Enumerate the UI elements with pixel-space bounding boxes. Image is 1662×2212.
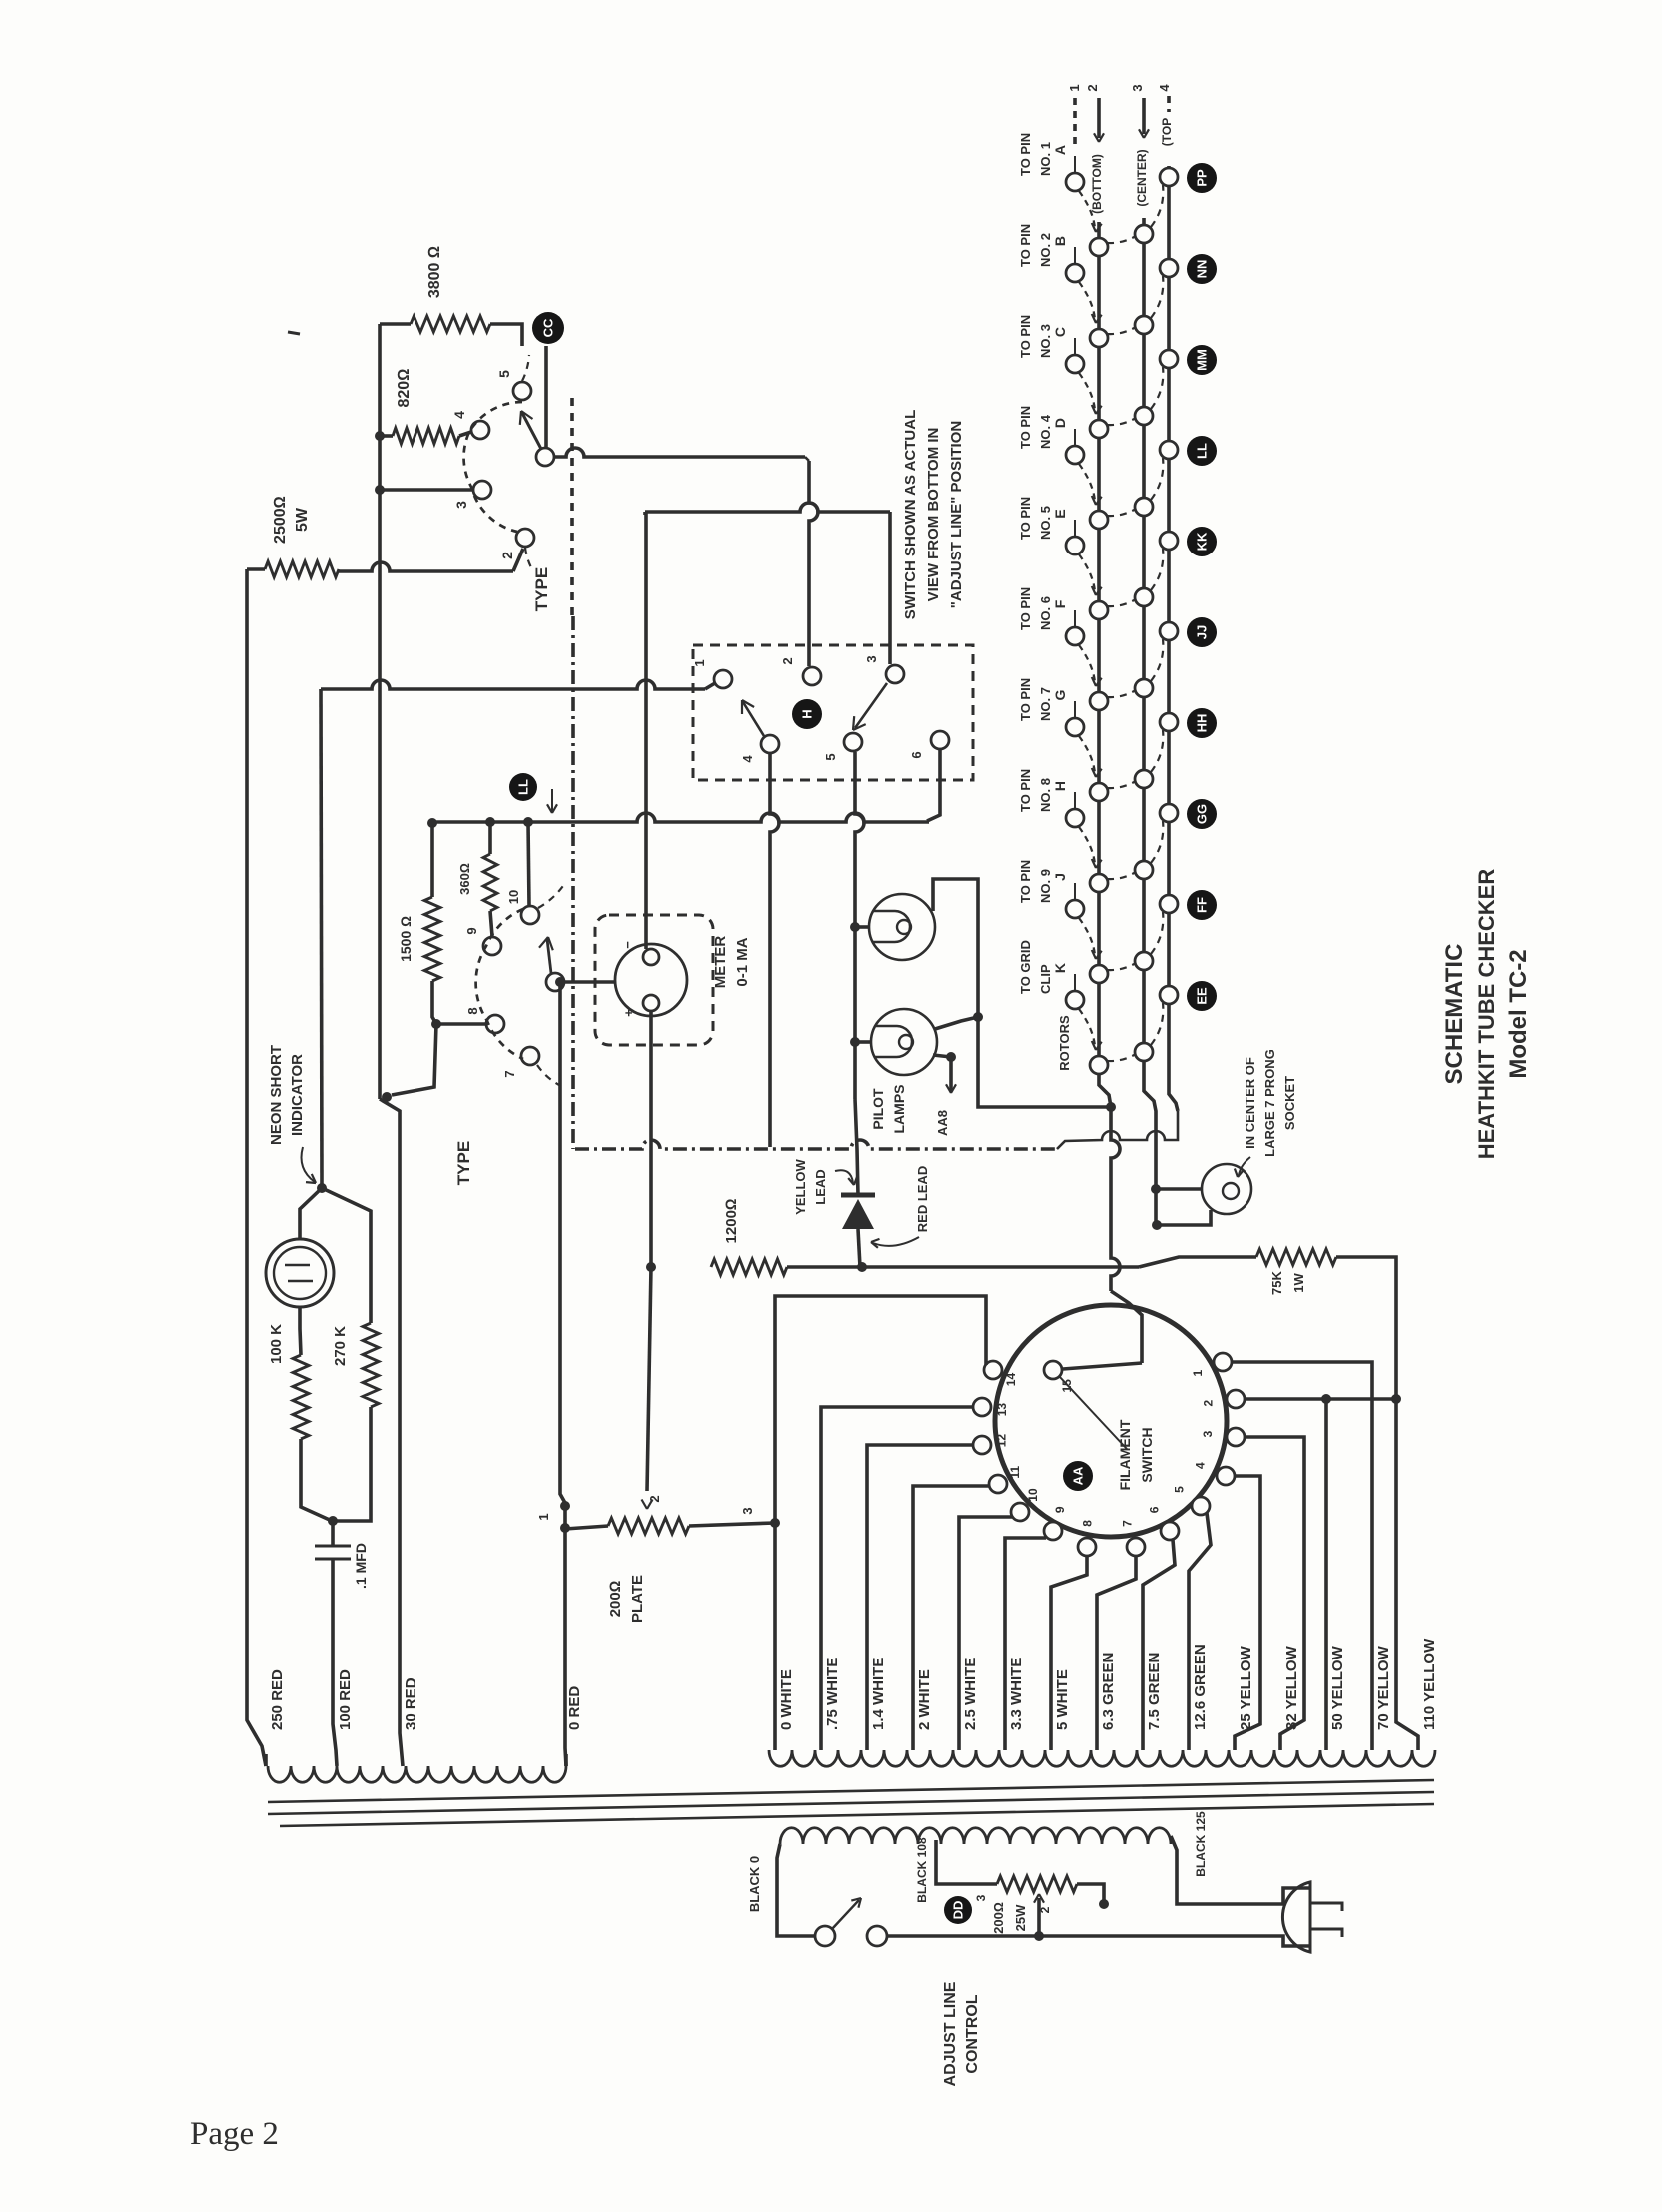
wire diode bottom bbox=[858, 1229, 860, 1267]
svg-text:360Ω: 360Ω bbox=[457, 863, 472, 895]
svg-text:11: 11 bbox=[1008, 1466, 1022, 1479]
lower TYPE contact 8 bbox=[486, 1015, 504, 1033]
wire 75K junction to tap14 bbox=[1396, 1399, 1418, 1750]
svg-text:HEATHKIT TUBE CHECKER: HEATHKIT TUBE CHECKER bbox=[1474, 869, 1499, 1160]
svg-text:Model TC-2: Model TC-2 bbox=[1505, 949, 1532, 1078]
wire meter top vertical bbox=[643, 512, 647, 515]
svg-text:NO. 1: NO. 1 bbox=[1038, 142, 1053, 176]
resistor 3800 ohm bbox=[411, 316, 490, 332]
svg-text:ADJUST LINE: ADJUST LINE bbox=[942, 1981, 959, 2086]
svg-text:75K: 75K bbox=[1269, 1270, 1284, 1294]
wire 270K bottom bbox=[334, 1407, 371, 1521]
wire primary right end bbox=[1171, 1836, 1260, 1904]
meter terminal minus bbox=[643, 949, 659, 965]
dashed wiper links rung D bbox=[1107, 509, 1136, 516]
dash-dot gang line lower bbox=[575, 1140, 1057, 1149]
wire 3800 left lead bbox=[380, 322, 411, 326]
node PP bbox=[1187, 163, 1217, 193]
svg-text:7: 7 bbox=[1120, 1520, 1134, 1527]
junction 30RED bbox=[427, 818, 437, 828]
svg-text:4: 4 bbox=[740, 755, 755, 763]
svg-text:4: 4 bbox=[451, 411, 467, 419]
svg-text:6: 6 bbox=[1148, 1506, 1162, 1513]
rail3 contact rung J bbox=[1135, 952, 1153, 970]
rail2 contact rung J bbox=[1090, 965, 1108, 983]
primary winding bbox=[780, 1828, 1171, 1844]
wire lower rotor output bbox=[565, 980, 616, 984]
svg-text:3.3 WHITE: 3.3 WHITE bbox=[1008, 1658, 1025, 1730]
rail3 contact rung F bbox=[1135, 679, 1153, 697]
wire diode top to lamps bbox=[855, 1099, 858, 1195]
wire primary left down bbox=[777, 1844, 815, 1936]
wire rail 100 RED upper bbox=[321, 689, 322, 1186]
wire plate pot left bbox=[565, 1526, 608, 1529]
rail4 contact rung J bbox=[1160, 895, 1178, 913]
pin in center of 7 prong socket bbox=[1202, 1164, 1251, 1214]
dash-dot gang line down to lower switch bbox=[571, 616, 575, 1149]
wire rail4 return bbox=[1057, 1111, 1178, 1149]
svg-text:5 WHITE: 5 WHITE bbox=[1054, 1669, 1071, 1730]
wire 3800 right lead to CC stub bbox=[490, 324, 522, 346]
svg-text:TO PIN: TO PIN bbox=[1018, 406, 1033, 449]
resistor 1200 ohm bbox=[711, 1259, 787, 1275]
svg-text:H: H bbox=[1052, 781, 1068, 791]
rail3 contact rung D bbox=[1135, 498, 1153, 516]
dashed wiper links rung A bbox=[1107, 236, 1136, 243]
svg-text:NEON SHORT: NEON SHORT bbox=[268, 1045, 285, 1145]
svg-text:C: C bbox=[1052, 327, 1068, 337]
svg-text:9: 9 bbox=[1053, 1506, 1067, 1513]
svg-text:NO. 2: NO. 2 bbox=[1038, 233, 1053, 267]
svg-text:NO. 6: NO. 6 bbox=[1038, 596, 1053, 630]
svg-text:2500Ω: 2500Ω bbox=[272, 496, 289, 544]
rail4 contact rung E bbox=[1160, 532, 1178, 550]
wire 0RED tap bbox=[564, 1754, 568, 1766]
svg-text:(CENTER): (CENTER) bbox=[1135, 149, 1149, 206]
wire rotor rail 3 CENTER bbox=[1144, 218, 1156, 1225]
svg-text:2 WHITE: 2 WHITE bbox=[916, 1669, 933, 1730]
svg-text:8: 8 bbox=[1081, 1520, 1095, 1527]
socket pin contact D bbox=[1066, 446, 1084, 464]
svg-text:.75 WHITE: .75 WHITE bbox=[824, 1658, 841, 1730]
svg-text:KK: KK bbox=[1195, 532, 1210, 551]
wire lamp line to socket symbol bbox=[1156, 1187, 1202, 1191]
svg-text:HH: HH bbox=[1195, 714, 1210, 733]
svg-text:2: 2 bbox=[1201, 1400, 1215, 1407]
wire 2500 right lead to TYPE contact 2 bbox=[339, 562, 513, 571]
svg-text:GG: GG bbox=[1195, 804, 1210, 824]
svg-text:TO PIN: TO PIN bbox=[1018, 860, 1033, 903]
dashed wiper links rung C bbox=[1107, 418, 1136, 425]
wire rail 30 RED from resistor bank bbox=[378, 324, 382, 1099]
svg-text:1: 1 bbox=[692, 659, 707, 666]
rail2 contact rung E bbox=[1090, 601, 1108, 619]
resistor 100K bbox=[293, 1355, 309, 1439]
wire rotor rail 4 TOP bbox=[1169, 166, 1178, 1111]
dashed rotor arrow rung C bbox=[1079, 373, 1095, 410]
svg-text:AA: AA bbox=[1071, 1466, 1086, 1485]
svg-text:2: 2 bbox=[780, 657, 795, 664]
socket pin contact B bbox=[1066, 264, 1084, 282]
wire c14 up and over to 0-WHITE tap bbox=[775, 1296, 986, 1750]
filament switch contact 7 bbox=[1127, 1538, 1145, 1556]
rail2 contact rung A bbox=[1090, 238, 1108, 256]
rotary switch TYPE upper - rotor contact bbox=[536, 448, 554, 466]
switch H contact 1 bbox=[714, 670, 732, 688]
core rail 2 bbox=[268, 1792, 1434, 1814]
svg-text:SCHEMATIC: SCHEMATIC bbox=[1441, 944, 1468, 1085]
wire to TYPE contact 3 bbox=[380, 488, 472, 492]
node JJ bbox=[1187, 617, 1217, 647]
node FF bbox=[1187, 890, 1217, 920]
svg-text:NN: NN bbox=[1195, 260, 1210, 279]
rail3 contact rung A bbox=[1135, 225, 1153, 243]
svg-text:1: 1 bbox=[1191, 1370, 1205, 1377]
filament switch contact 4 bbox=[1217, 1467, 1235, 1485]
wiper 200-25W bbox=[1037, 1898, 1041, 1936]
svg-text:110 YELLOW: 110 YELLOW bbox=[1421, 1638, 1438, 1730]
wire 2500 left lead bbox=[247, 567, 265, 571]
wire c8 to tap6 bbox=[1051, 1556, 1087, 1750]
rail4 contact rung H bbox=[1160, 804, 1178, 822]
svg-text:BLACK 108: BLACK 108 bbox=[915, 1837, 929, 1903]
node AA bbox=[1063, 1461, 1093, 1491]
node meter-1200 junction bbox=[646, 1262, 656, 1272]
svg-text:3800 Ω: 3800 Ω bbox=[426, 246, 443, 298]
rail4 contact rung C bbox=[1160, 350, 1178, 368]
wire c12 to tap2 bbox=[867, 1445, 973, 1750]
svg-text:RED LEAD: RED LEAD bbox=[915, 1166, 930, 1232]
rotor arm H left bbox=[743, 702, 764, 736]
svg-text:1500 Ω: 1500 Ω bbox=[398, 916, 414, 962]
arrow LL bbox=[551, 789, 553, 811]
svg-text:1: 1 bbox=[1067, 84, 1082, 91]
wire 1200 right to 75K bbox=[787, 1265, 1139, 1269]
dashed stub contact2 bbox=[525, 548, 533, 571]
svg-text:H: H bbox=[800, 709, 815, 718]
svg-text:(TOP: (TOP bbox=[1160, 118, 1174, 146]
wire rotor to H-box contact 2 bbox=[555, 448, 805, 457]
svg-text:TYPE: TYPE bbox=[454, 1141, 473, 1185]
wire plug leads bbox=[1260, 1888, 1310, 1904]
wire c10 to tap4 bbox=[959, 1517, 1012, 1750]
svg-text:10: 10 bbox=[506, 890, 521, 904]
wire H contact6 to bus bbox=[927, 750, 940, 821]
lower TYPE contact 9 bbox=[483, 937, 501, 955]
pilot lamp 2 bbox=[871, 1009, 937, 1075]
rotor arm H right bbox=[855, 683, 887, 728]
filament switch contact 5 bbox=[1192, 1497, 1210, 1515]
svg-text:13: 13 bbox=[995, 1403, 1009, 1417]
filament switch contact 15 bbox=[1044, 1361, 1062, 1379]
dashed rotor arrow rung D bbox=[1079, 464, 1095, 501]
dashed arc upper TYPE switch bbox=[464, 402, 522, 532]
dashed stub contact5 to CC bbox=[522, 355, 529, 381]
socket pin contact K bbox=[1066, 991, 1084, 1009]
node NN bbox=[1187, 254, 1217, 284]
svg-text:25W: 25W bbox=[1013, 1904, 1028, 1931]
rotary switch TYPE upper - contact 5 bbox=[513, 382, 531, 400]
svg-text:3: 3 bbox=[1130, 84, 1145, 91]
svg-text:30 RED: 30 RED bbox=[403, 1677, 419, 1730]
meter dashed box bbox=[595, 915, 713, 1045]
rail3 contact rung G bbox=[1135, 770, 1153, 788]
node LL bbox=[509, 773, 537, 801]
svg-text:2.5 WHITE: 2.5 WHITE bbox=[962, 1658, 979, 1730]
svg-text:6.3 GREEN: 6.3 GREEN bbox=[1100, 1653, 1117, 1730]
svg-text:0 WHITE: 0 WHITE bbox=[778, 1669, 795, 1730]
dashed wiper links rung H bbox=[1107, 872, 1136, 879]
svg-text:2: 2 bbox=[499, 552, 515, 559]
resistor 2500 ohm 5W bbox=[265, 561, 339, 577]
svg-text:NO. 8: NO. 8 bbox=[1038, 778, 1053, 812]
svg-text:3: 3 bbox=[1201, 1430, 1215, 1437]
svg-text:TO PIN: TO PIN bbox=[1018, 224, 1033, 267]
wire c2 to tap12 bbox=[1245, 1397, 1396, 1401]
svg-text:DD: DD bbox=[951, 1901, 966, 1920]
svg-text:SWITCH: SWITCH bbox=[1139, 1427, 1155, 1482]
plate winding bbox=[268, 1766, 566, 1782]
wire c4 to tap10 bbox=[1235, 1476, 1260, 1750]
svg-text:1.4 WHITE: 1.4 WHITE bbox=[870, 1658, 887, 1730]
filament switch contact 13 bbox=[973, 1398, 991, 1416]
svg-text:B: B bbox=[1052, 236, 1068, 246]
svg-text:G: G bbox=[1052, 689, 1068, 700]
capacitor .1 MFD bbox=[315, 1546, 351, 1559]
wire filament bus 822 bbox=[432, 813, 929, 822]
svg-text:BLACK 125: BLACK 125 bbox=[1194, 1811, 1208, 1877]
svg-text:LAMPS: LAMPS bbox=[891, 1085, 907, 1134]
dashed stub contact7 bbox=[537, 1065, 559, 1085]
svg-text:5: 5 bbox=[496, 370, 512, 378]
wire cap top lead bbox=[331, 1521, 335, 1546]
socket pin contact F bbox=[1066, 627, 1084, 645]
svg-text:A: A bbox=[1052, 145, 1068, 155]
rail2 contact rung C bbox=[1090, 420, 1108, 438]
rail2 contact rung H bbox=[1090, 874, 1108, 892]
on-off switch contact left bbox=[815, 1926, 835, 1946]
svg-text:CC: CC bbox=[541, 318, 556, 337]
dashed arc lower TYPE bbox=[476, 909, 523, 1059]
switch H dashed box bbox=[693, 645, 973, 780]
svg-text:INDICATOR: INDICATOR bbox=[289, 1054, 306, 1136]
socket pin contact H bbox=[1066, 809, 1084, 827]
rotary switch TYPE upper - contact 2 bbox=[516, 529, 534, 547]
svg-text:E: E bbox=[1052, 509, 1068, 518]
wire plate pot right to 0-WHITE tap bbox=[689, 1523, 775, 1526]
svg-text:SOCKET: SOCKET bbox=[1282, 1076, 1297, 1130]
wire rail 250 RED bbox=[247, 569, 266, 1766]
dashed wiper links rung B bbox=[1107, 327, 1136, 334]
svg-text:VIEW FROM BOTTOM IN: VIEW FROM BOTTOM IN bbox=[925, 428, 942, 602]
wire socket bottom link bbox=[1157, 1210, 1211, 1225]
wire H-box contact1 feed from left rail bbox=[321, 680, 705, 689]
pilot lamp 1 right wire bbox=[933, 879, 1107, 1107]
AC plug bbox=[1282, 1882, 1310, 1952]
svg-text:TO PIN: TO PIN bbox=[1018, 315, 1033, 358]
dashed rotor arrow rung K bbox=[1079, 1009, 1095, 1046]
node CC bbox=[532, 312, 564, 344]
meter terminal plus bbox=[643, 995, 659, 1011]
potentiometer 200 ohm 25W bbox=[997, 1876, 1077, 1892]
socket pin contact A bbox=[1066, 173, 1084, 191]
node H bbox=[792, 699, 822, 729]
lower TYPE contact 10 bbox=[521, 906, 539, 924]
svg-text:TO PIN: TO PIN bbox=[1018, 497, 1033, 540]
wire rotor branch down to plate pot and 0RED bbox=[560, 982, 566, 1766]
svg-text:250 RED: 250 RED bbox=[269, 1669, 286, 1730]
resistor 270K bbox=[363, 1323, 379, 1407]
node MM bbox=[1187, 345, 1217, 375]
wire meter bottom down bbox=[649, 1011, 653, 1267]
svg-text:3: 3 bbox=[453, 501, 469, 509]
core rail 1 bbox=[268, 1780, 1434, 1802]
svg-text:6: 6 bbox=[909, 751, 924, 758]
wire c13 to tap1 bbox=[821, 1407, 973, 1750]
svg-text:12: 12 bbox=[995, 1434, 1009, 1448]
svg-text:(BOTTOM): (BOTTOM) bbox=[1090, 154, 1104, 214]
dashed rotor arrow rung H bbox=[1079, 827, 1095, 864]
rotary switch TYPE upper - contact 4 bbox=[471, 421, 489, 439]
dashed rotor arrow rung G bbox=[1079, 736, 1095, 773]
svg-text:.1 MFD: .1 MFD bbox=[353, 1543, 369, 1589]
svg-text:200Ω: 200Ω bbox=[991, 1902, 1006, 1934]
node LL bbox=[1187, 436, 1217, 466]
svg-text:3: 3 bbox=[740, 1507, 755, 1514]
on-off switch contact right bbox=[867, 1926, 887, 1946]
socket pin contact E bbox=[1066, 537, 1084, 554]
svg-text:50 YELLOW: 50 YELLOW bbox=[1329, 1645, 1346, 1730]
svg-text:NO. 9: NO. 9 bbox=[1038, 869, 1053, 903]
rail4 contact rung F bbox=[1160, 622, 1178, 640]
wire c3 to tap11 bbox=[1245, 1437, 1304, 1750]
rail2 contact rung D bbox=[1090, 511, 1108, 529]
svg-text:100 K: 100 K bbox=[268, 1324, 285, 1364]
node GG bbox=[1187, 799, 1217, 829]
wire switch to plug bbox=[887, 1934, 1260, 1938]
resistor 1500 ohm bbox=[424, 897, 440, 981]
svg-text:+: + bbox=[621, 1009, 636, 1017]
svg-text:9: 9 bbox=[464, 927, 479, 934]
svg-text:14: 14 bbox=[1004, 1373, 1018, 1387]
svg-text:12.6 GREEN: 12.6 GREEN bbox=[1192, 1644, 1209, 1730]
wire 270K top lead bbox=[322, 1188, 371, 1323]
svg-text:8: 8 bbox=[465, 1007, 480, 1014]
svg-text:FF: FF bbox=[1195, 897, 1210, 913]
svg-text:TYPE: TYPE bbox=[532, 567, 551, 611]
rotary switch TYPE upper - contact 3 bbox=[473, 481, 491, 499]
rail2 contact rung B bbox=[1090, 329, 1108, 347]
wire cap bottom to 100RED tap bbox=[333, 1559, 337, 1766]
rail3 contact rung C bbox=[1135, 407, 1153, 425]
neon short indicator lamp bbox=[266, 1239, 334, 1307]
wire c11 to tap3 bbox=[913, 1486, 989, 1750]
switch H contact 2 bbox=[803, 667, 821, 685]
wire 1500 bottom to contact 8 bbox=[432, 981, 436, 1024]
switch H contact 6 bbox=[931, 731, 949, 749]
node KK bbox=[1187, 527, 1217, 556]
svg-text:70 YELLOW: 70 YELLOW bbox=[1375, 1645, 1392, 1730]
wire neon top lead bbox=[300, 1188, 322, 1239]
wire c9 to tap5 bbox=[1005, 1538, 1046, 1750]
dashed rotor arrow rung F bbox=[1079, 645, 1095, 682]
svg-text:D: D bbox=[1052, 418, 1068, 428]
potentiometer 200 ohm PLATE bbox=[608, 1518, 689, 1534]
svg-text:METER: METER bbox=[712, 936, 729, 989]
wire H-box contact3 feed bbox=[645, 503, 890, 512]
dashed rotor arrow rung E bbox=[1079, 554, 1095, 591]
dashed rotor arrow rung A bbox=[1079, 191, 1095, 228]
resistor 820 ohm bbox=[393, 428, 459, 444]
filament switch contact 14 bbox=[984, 1361, 1002, 1379]
corner mark bbox=[288, 332, 300, 334]
svg-text:LARGE 7 PRONG: LARGE 7 PRONG bbox=[1262, 1049, 1277, 1157]
svg-text:2: 2 bbox=[1085, 84, 1100, 91]
wire c1 to tap13 bbox=[1232, 1362, 1372, 1750]
svg-text:MM: MM bbox=[1195, 349, 1210, 371]
wire to plate pot wiper bbox=[647, 1267, 651, 1491]
svg-text:YELLOW: YELLOW bbox=[793, 1158, 808, 1214]
wire rotor rail 2 BOTTOM bbox=[1099, 222, 1111, 1107]
svg-text:3: 3 bbox=[974, 1894, 988, 1901]
rotor arm lower TYPE bbox=[547, 939, 551, 973]
switch H contact 4 bbox=[761, 735, 779, 753]
svg-text:270 K: 270 K bbox=[332, 1326, 349, 1366]
svg-text:200Ω: 200Ω bbox=[607, 1581, 624, 1618]
filament switch contact 8 bbox=[1078, 1538, 1096, 1556]
dashed wiper links rung K bbox=[1107, 1054, 1136, 1061]
svg-text:3: 3 bbox=[864, 655, 879, 662]
svg-text:LEAD: LEAD bbox=[813, 1169, 828, 1204]
wire AA8 stub bbox=[933, 1055, 951, 1057]
rotor arm upper TYPE bbox=[522, 413, 541, 449]
filament switch contact 12 bbox=[973, 1436, 991, 1454]
svg-text:NO. 4: NO. 4 bbox=[1038, 414, 1053, 449]
wire pot right to plug line bbox=[1077, 1884, 1104, 1904]
svg-text:FILAMENT: FILAMENT bbox=[1117, 1419, 1133, 1490]
wire neon bottom lead bbox=[300, 1307, 301, 1355]
svg-text:0 RED: 0 RED bbox=[566, 1686, 583, 1730]
filament switch circle bbox=[995, 1305, 1227, 1537]
dashed rotor arrow rung B bbox=[1079, 282, 1095, 319]
diode rectifier bbox=[841, 1193, 875, 1198]
wire CC to rotor bbox=[544, 346, 548, 447]
rail4 contact rung A bbox=[1160, 168, 1178, 186]
wire rail2 bottom continuation bbox=[1106, 1102, 1116, 1112]
svg-text:CLIP: CLIP bbox=[1038, 964, 1053, 994]
wire c7 to tap7 bbox=[1097, 1556, 1136, 1750]
switch lever bbox=[832, 1900, 859, 1929]
svg-text:K: K bbox=[1052, 963, 1068, 973]
svg-text:LL: LL bbox=[1195, 443, 1210, 459]
svg-text:4: 4 bbox=[1157, 84, 1172, 92]
socket pin contact G bbox=[1066, 718, 1084, 736]
svg-text:10: 10 bbox=[1026, 1488, 1040, 1502]
svg-text:NO. 7: NO. 7 bbox=[1038, 687, 1053, 721]
filament switch contact 11 bbox=[989, 1475, 1007, 1493]
svg-text:2: 2 bbox=[647, 1495, 662, 1502]
svg-text:100 RED: 100 RED bbox=[337, 1669, 354, 1730]
node EE bbox=[1187, 981, 1217, 1011]
filament switch contact 1 bbox=[1214, 1353, 1232, 1371]
svg-text:J: J bbox=[1052, 873, 1068, 881]
svg-text:TO GRID: TO GRID bbox=[1018, 940, 1033, 994]
dashed wiper links rung E bbox=[1107, 599, 1136, 606]
svg-text:32 YELLOW: 32 YELLOW bbox=[1283, 1645, 1300, 1730]
svg-text:0-1 MA: 0-1 MA bbox=[734, 937, 751, 986]
dashed wiper links rung G bbox=[1107, 781, 1136, 788]
svg-text:EE: EE bbox=[1195, 987, 1210, 1005]
